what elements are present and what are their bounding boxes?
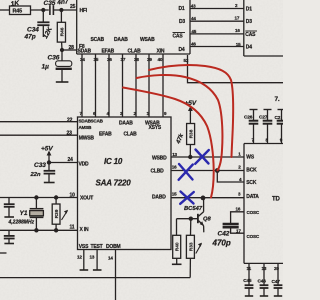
node junction R39 top (54, 195, 58, 199)
wire R45 to node (31, 9, 49, 11)
svg-text:15: 15 (236, 42, 241, 47)
svg-text:46: 46 (191, 42, 196, 47)
svg-text:COSC: COSC (247, 234, 260, 239)
capacitor C42 wiring pin17 (231, 228, 244, 234)
svg-text:20: 20 (274, 266, 279, 271)
capacitor C40 (8, 198, 10, 204)
stub wire left edge (0, 252, 7, 254)
wire DABD to DATA (171, 197, 244, 199)
svg-text:13: 13 (172, 152, 177, 157)
node junction C34 tap (41, 8, 45, 12)
svg-text:C47: C47 (272, 279, 281, 285)
capacitor C34 (42, 10, 44, 22)
capacitor C42 wiring pin16 (231, 212, 244, 224)
wire pin 14 DOBM down (115, 250, 117, 300)
svg-text:25: 25 (70, 4, 76, 10)
svg-text:C34: C34 (27, 27, 39, 34)
wire decoder pin 40 to IC10 pin 9 (162, 54, 164, 117)
resistor R33 (186, 235, 194, 258)
svg-text:16: 16 (235, 28, 240, 33)
blue X on CLBD wire (179, 164, 193, 180)
svg-text:TD: TD (272, 197, 280, 203)
svg-text:13: 13 (90, 255, 95, 260)
transistor Q2 collector wire (203, 198, 205, 212)
wire D3 row (190, 20, 244, 22)
svg-text:C26: C26 (244, 114, 253, 120)
svg-text:IC 10: IC 10 (104, 157, 123, 166)
svg-text:XSYS: XSYS (149, 125, 162, 131)
capacitor C33 (48, 163, 50, 171)
resistor R39 (55, 198, 57, 205)
wire decoder pin 39 to IC10 pin 1 (148, 54, 150, 117)
svg-text:SDAB: SDAB (78, 49, 92, 55)
wire base to R40 (176, 219, 178, 236)
svg-text:R39: R39 (54, 209, 60, 218)
node junction R38 bottom (188, 155, 192, 159)
CAS overline RAM (245, 30, 257, 32)
svg-text:12: 12 (77, 255, 82, 260)
resistor R45 (10, 6, 31, 15)
svg-text:40: 40 (158, 57, 163, 62)
crystal Y1 (35, 198, 37, 209)
svg-text:DAAB: DAAB (114, 37, 128, 43)
svg-text:X IN: X IN (80, 227, 90, 233)
printed labels (13, 3, 283, 285)
capacitor C42 (223, 223, 239, 226)
svg-text:C35: C35 (44, 0, 56, 7)
svg-text:Y1: Y1 (20, 210, 28, 217)
red mod wire DAAB to DATA (123, 88, 214, 198)
svg-text:D3: D3 (246, 19, 252, 25)
svg-text:52: 52 (184, 58, 189, 63)
wire node to pin 28 (62, 49, 77, 51)
ground for C33 (44, 182, 55, 184)
blue X on WSBD wire (196, 150, 209, 164)
svg-text:SAA 7220: SAA 7220 (96, 179, 132, 188)
svg-text:SCK: SCK (246, 180, 257, 186)
node junction R39 bottom (54, 228, 58, 232)
svg-text:45: 45 (191, 29, 196, 34)
RAM IC left edge (243, 0, 245, 56)
svg-text:38: 38 (134, 57, 139, 62)
svg-text:R40: R40 (175, 242, 181, 251)
svg-text:7.: 7. (275, 96, 280, 103)
svg-text:DAAB: DAAB (119, 121, 133, 127)
svg-text:SCAB: SCAB (91, 37, 105, 43)
IC10 SAA7220 box (78, 117, 172, 250)
ground stub pin 13 (96, 250, 98, 270)
svg-text:15: 15 (172, 192, 177, 197)
svg-text:C27: C27 (259, 114, 268, 120)
wire Q8 base (177, 218, 198, 220)
node junction pin28 (60, 48, 64, 52)
svg-text:22n: 22n (30, 172, 41, 178)
svg-text:13: 13 (262, 266, 267, 271)
svg-text:17: 17 (235, 16, 240, 21)
capacitor C45 (248, 263, 250, 284)
svg-text:WSAB: WSAB (140, 37, 155, 43)
capacitor C26 (250, 109, 258, 111)
transistor Q8 emitter (199, 221, 204, 226)
wire decoder pin 36 to IC10 pin 4 (108, 54, 110, 117)
svg-text:EFAB: EFAB (102, 49, 115, 55)
resistor R40 (173, 235, 181, 258)
wire pin 11 XIN (0, 229, 78, 231)
svg-text:MWSB: MWSB (79, 136, 95, 142)
wire CLBD to BCK (171, 170, 244, 172)
svg-text:XIN: XIN (157, 49, 165, 55)
svg-text:BC547: BC547 (184, 206, 203, 212)
svg-text:39: 39 (147, 57, 152, 62)
wire pin 24 VDD (49, 162, 78, 164)
svg-text:EFAB: EFAB (99, 132, 112, 138)
transistor Q8 base bar (197, 214, 199, 223)
handwritten value labels (8, 0, 231, 247)
ground for R40 (172, 263, 182, 265)
svg-text:VSS: VSS (79, 244, 89, 250)
svg-text:C46: C46 (258, 279, 267, 285)
svg-text:C42: C42 (218, 231, 230, 238)
decoder IC left edge (76, 0, 78, 54)
node junction crystal top (34, 195, 38, 199)
svg-text:SCAB: SCAB (91, 119, 104, 124)
red mod wire WSAB to WS (149, 65, 233, 157)
svg-text:DABD: DABD (152, 195, 166, 201)
svg-text:R38: R38 (189, 129, 195, 138)
wire decoder pin 35 to IC10 pin 6 (95, 54, 97, 117)
svg-text:D1: D1 (179, 6, 185, 12)
svg-text:CLBD: CLBD (151, 169, 165, 175)
svg-text:D4: D4 (246, 45, 252, 51)
svg-text:CLAB: CLAB (128, 49, 142, 55)
svg-text:16: 16 (172, 164, 177, 169)
svg-text:C36: C36 (48, 55, 60, 62)
CAS overline decoder (173, 32, 186, 34)
node junction base/R33 (189, 217, 193, 221)
svg-text:28: 28 (69, 45, 75, 51)
node junction BCK/SCK (215, 168, 220, 173)
svg-text:11: 11 (70, 225, 75, 231)
svg-text:22: 22 (67, 117, 73, 123)
svg-text:470p: 470p (212, 239, 231, 248)
svg-text:D4: D4 (179, 47, 185, 53)
svg-text:36: 36 (107, 57, 112, 62)
svg-text:11: 11 (247, 266, 252, 271)
svg-text:17: 17 (236, 228, 241, 233)
wire decoder pin 34 to IC10 pin 7 (81, 54, 83, 117)
ground for C40 (4, 216, 14, 218)
svg-text:COSC: COSC (247, 210, 260, 215)
svg-text:47p: 47p (24, 34, 36, 41)
svg-text:37: 37 (121, 57, 126, 62)
wire WSBD to WS (171, 156, 244, 158)
node junction crystal bottom (34, 228, 38, 232)
svg-text:R33: R33 (188, 242, 194, 251)
ground stub pin 12 (83, 250, 85, 270)
svg-text:TEST: TEST (91, 244, 103, 250)
node junction DATA/collector (201, 196, 206, 201)
svg-text:4,2288MHz: 4,2288MHz (8, 220, 35, 226)
svg-text:C33: C33 (34, 162, 46, 169)
svg-text:35: 35 (94, 57, 99, 62)
svg-text:AMSB: AMSB (79, 125, 93, 130)
svg-text:16: 16 (236, 207, 241, 212)
node junction C33 (47, 160, 51, 164)
wire pin 23 (0, 134, 78, 136)
ground for C41 (4, 243, 14, 245)
svg-text:24: 24 (68, 157, 74, 163)
resistor R46 (60, 10, 62, 22)
svg-text:CAS: CAS (173, 34, 184, 40)
svg-text:HFI: HFI (80, 8, 88, 14)
svg-text:CLAB: CLAB (124, 132, 138, 138)
svg-text:CAS: CAS (245, 32, 256, 38)
wire decoder pin 52 down and right (188, 55, 284, 83)
svg-text:WS: WS (246, 154, 255, 160)
component reference texts vertical (54, 27, 195, 251)
capacitor C27 (264, 109, 272, 111)
wire decoder pin 37 to IC10 pin 3 (122, 54, 124, 117)
svg-text:23: 23 (67, 131, 73, 137)
svg-text:44: 44 (191, 16, 196, 21)
capacitor C46 (263, 263, 265, 284)
ground for C36 (56, 81, 69, 83)
wire D1 row (190, 8, 244, 10)
red mod wire CLAB to BCK (137, 75, 223, 170)
node junction R46 top (59, 8, 63, 12)
svg-text:D3: D3 (179, 19, 185, 25)
svg-text:34: 34 (80, 57, 85, 62)
svg-text:DATA: DATA (246, 194, 259, 200)
svg-text:10: 10 (70, 193, 76, 199)
+5V supply arrow for R38 (189, 108, 191, 124)
decoder IC bottom edge (77, 53, 190, 55)
svg-text:D1: D1 (246, 7, 252, 13)
+5V supply arrow for VDD (48, 152, 50, 163)
capacitor C41 (8, 230, 10, 235)
bottom bus wire (0, 277, 190, 279)
svg-text:BCK: BCK (246, 168, 257, 174)
svg-text:C45: C45 (243, 278, 252, 284)
svg-text:14: 14 (108, 256, 113, 261)
adjust arrow on R33 (196, 244, 202, 254)
svg-text:C2: C2 (275, 115, 281, 121)
wire pin 22 (0, 121, 78, 123)
wire C35 to pin 25 (53, 9, 76, 11)
svg-text:Q8: Q8 (203, 217, 212, 223)
wire pin 10 XOUT (0, 197, 78, 199)
svg-text:R45: R45 (13, 9, 23, 15)
capacitor C28 (278, 109, 284, 111)
svg-text:DOBM: DOBM (106, 244, 121, 250)
adjust arrow on R39 (62, 211, 68, 221)
decoder IC right edge (189, 0, 191, 54)
svg-text:XOUT: XOUT (80, 196, 93, 202)
resistor R38 (187, 124, 195, 145)
wire decoder pin 38 to IC10 pin 2 (135, 54, 137, 117)
svg-text:VDD: VDD (79, 161, 90, 167)
blue X on DABD wire (181, 192, 194, 204)
wire CAS row (190, 33, 244, 35)
capacitor C35 (series) (49, 5, 51, 15)
wire left input to R45 (0, 9, 10, 11)
svg-text:43: 43 (191, 4, 196, 9)
svg-text:+5V: +5V (41, 146, 53, 153)
svg-text:WSBD: WSBD (152, 155, 167, 161)
capacitor C47 (277, 263, 279, 284)
DAC IC box edges (243, 144, 245, 264)
RAM IC bottom edge (244, 55, 283, 57)
capacitor C36 (electrolytic) (61, 50, 63, 61)
svg-text:R46: R46 (60, 27, 66, 36)
svg-text:1µ: 1µ (42, 64, 50, 71)
wire BCK to SCK link (217, 171, 244, 183)
wire base node to R33 (190, 219, 192, 236)
wire D4 row (190, 46, 244, 48)
